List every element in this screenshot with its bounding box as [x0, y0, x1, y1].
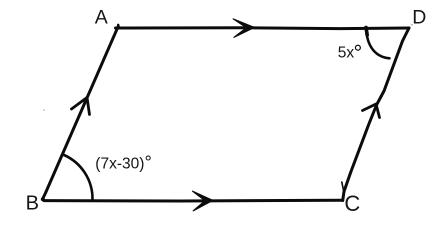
- svg-text:D: D: [412, 7, 426, 29]
- svg-text:5x: 5x: [338, 45, 355, 62]
- svg-text:(7x-30): (7x-30): [95, 155, 144, 172]
- svg-text:C: C: [344, 191, 360, 216]
- svg-text:A: A: [95, 7, 108, 29]
- svg-text:B: B: [26, 193, 39, 215]
